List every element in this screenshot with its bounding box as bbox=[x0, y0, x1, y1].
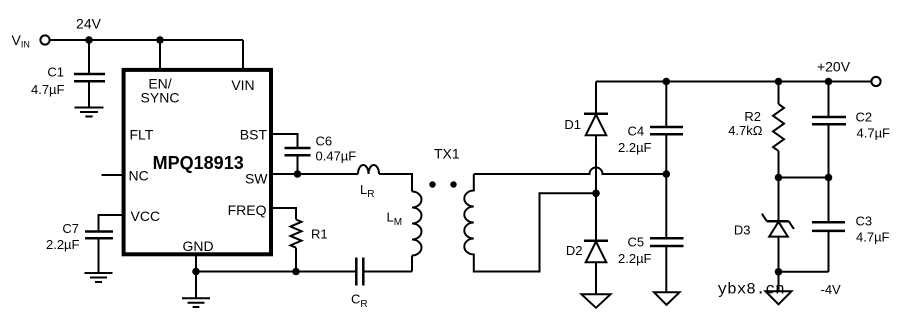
svg-text:C2: C2 bbox=[856, 110, 873, 125]
svg-text:2.2µF: 2.2µF bbox=[618, 140, 652, 155]
svg-text:C1: C1 bbox=[47, 65, 64, 80]
svg-text:GND: GND bbox=[182, 238, 213, 254]
svg-text:C4: C4 bbox=[628, 124, 645, 139]
svg-text:2.2µF: 2.2µF bbox=[46, 237, 80, 252]
svg-text:VIN: VIN bbox=[231, 77, 254, 93]
svg-text:4.7µF: 4.7µF bbox=[857, 126, 891, 141]
svg-text:+20V: +20V bbox=[817, 59, 851, 75]
svg-text:R1: R1 bbox=[311, 227, 328, 242]
svg-text:0.47µF: 0.47µF bbox=[316, 149, 357, 164]
svg-text:SW: SW bbox=[245, 171, 268, 187]
svg-text:-4V: -4V bbox=[821, 282, 842, 297]
svg-text:C3: C3 bbox=[856, 214, 873, 229]
svg-text:C7: C7 bbox=[62, 221, 79, 236]
svg-text:D1: D1 bbox=[564, 117, 581, 132]
svg-text:D3: D3 bbox=[734, 223, 751, 238]
svg-text:TX1: TX1 bbox=[434, 146, 460, 162]
svg-text:BST: BST bbox=[240, 127, 268, 143]
svg-text:D2: D2 bbox=[566, 243, 583, 258]
svg-text:ybx8.cn: ybx8.cn bbox=[718, 281, 785, 299]
svg-text:SYNC: SYNC bbox=[141, 90, 180, 106]
svg-text:24V: 24V bbox=[76, 16, 102, 32]
svg-text:2.2µF: 2.2µF bbox=[618, 251, 652, 266]
svg-text:MPQ18913: MPQ18913 bbox=[153, 153, 244, 173]
svg-text:NC: NC bbox=[129, 168, 149, 184]
svg-text:R2: R2 bbox=[744, 109, 761, 124]
svg-text:C6: C6 bbox=[316, 134, 333, 149]
svg-text:4.7µF: 4.7µF bbox=[31, 82, 65, 97]
svg-text:VCC: VCC bbox=[131, 208, 161, 224]
svg-text:FLT: FLT bbox=[130, 127, 154, 143]
svg-text:C5: C5 bbox=[628, 235, 645, 250]
svg-text:4.7kΩ: 4.7kΩ bbox=[728, 123, 763, 138]
svg-text:4.7µF: 4.7µF bbox=[856, 230, 890, 245]
svg-text:FREQ: FREQ bbox=[228, 202, 267, 218]
